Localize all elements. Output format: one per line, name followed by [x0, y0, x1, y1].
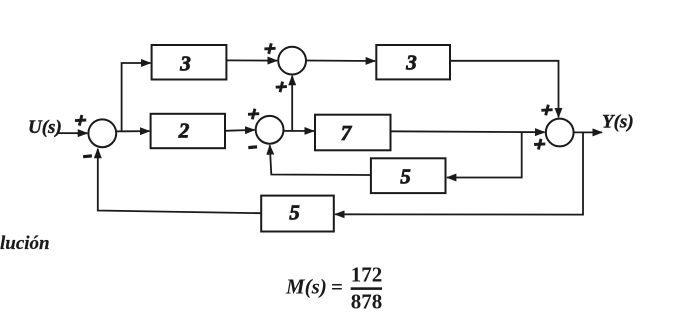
- input label U(s): [28, 117, 62, 138]
- formula M(s) = 172/878: [285, 263, 382, 313]
- svg-text:3: 3: [405, 51, 417, 75]
- wire S4 output to Y(s): [574, 131, 602, 133]
- summing junction S4 output: [546, 119, 574, 147]
- svg-text:5: 5: [289, 201, 300, 225]
- svg-text:3: 3: [179, 52, 191, 76]
- sign + at S2 input: [248, 109, 259, 120]
- svg-text:U(s): U(s): [28, 117, 62, 138]
- svg-text:Y(s): Y(s): [602, 112, 634, 133]
- sign - at S1 feedback input: [83, 154, 92, 158]
- sign + at S3 bottom input: [276, 82, 287, 93]
- wire S3 output to block 3 upper-right: [306, 60, 375, 63]
- node takeoff after S4 down to bottom feedback: [335, 132, 583, 214]
- svg-text:5: 5: [400, 165, 411, 189]
- gain block 3 upper-right: [376, 45, 450, 79]
- svg-text:M(s): M(s): [285, 275, 327, 299]
- node takeoff on block7 output to block 5 middle: [447, 132, 522, 178]
- output label Y(s): [602, 112, 634, 133]
- gain block 3 upper-left: [152, 45, 227, 80]
- gain block 5 middle: [371, 158, 446, 193]
- node branch after S2 up to S3: [291, 76, 293, 131]
- wire block 5 middle to S2 bottom: [270, 145, 371, 175]
- wire U(s) input to summing junction S1: [57, 132, 87, 134]
- svg-text:=: =: [331, 275, 343, 299]
- summing junction S3 top: [278, 47, 306, 75]
- wire block 3 upper-right to summing junction S4 top: [450, 61, 559, 118]
- svg-text:172: 172: [351, 263, 383, 287]
- svg-text:lución: lución: [0, 233, 50, 254]
- wire S1 output to block 2: [116, 130, 149, 132]
- gain block 2: [151, 114, 225, 148]
- gain block 7: [315, 115, 391, 151]
- summing junction S2: [256, 116, 284, 144]
- caption text lucion: [0, 233, 50, 254]
- summing junction S1: [88, 119, 116, 147]
- wire block 2 to summing junction S2: [225, 129, 255, 132]
- svg-text:2: 2: [178, 119, 190, 143]
- sign + at S3 left input: [264, 43, 275, 54]
- sign + at S4 left input: [534, 139, 545, 150]
- wire block 7 to summing junction S4: [391, 130, 545, 133]
- svg-text:878: 878: [351, 290, 383, 313]
- sign + at S1 input: [75, 115, 86, 126]
- gain block 5 bottom: [261, 196, 334, 232]
- wire S2 output to block 7: [284, 130, 314, 132]
- wire block 5 bottom to S1 bottom: [98, 149, 261, 213]
- sign - at S2 feedback input: [248, 145, 257, 149]
- sign + at S4 top input: [541, 105, 552, 116]
- wire block 3 upper-left to summing junction S3: [226, 59, 277, 61]
- node branch after S1: [122, 63, 151, 131]
- svg-text:7: 7: [341, 121, 353, 145]
